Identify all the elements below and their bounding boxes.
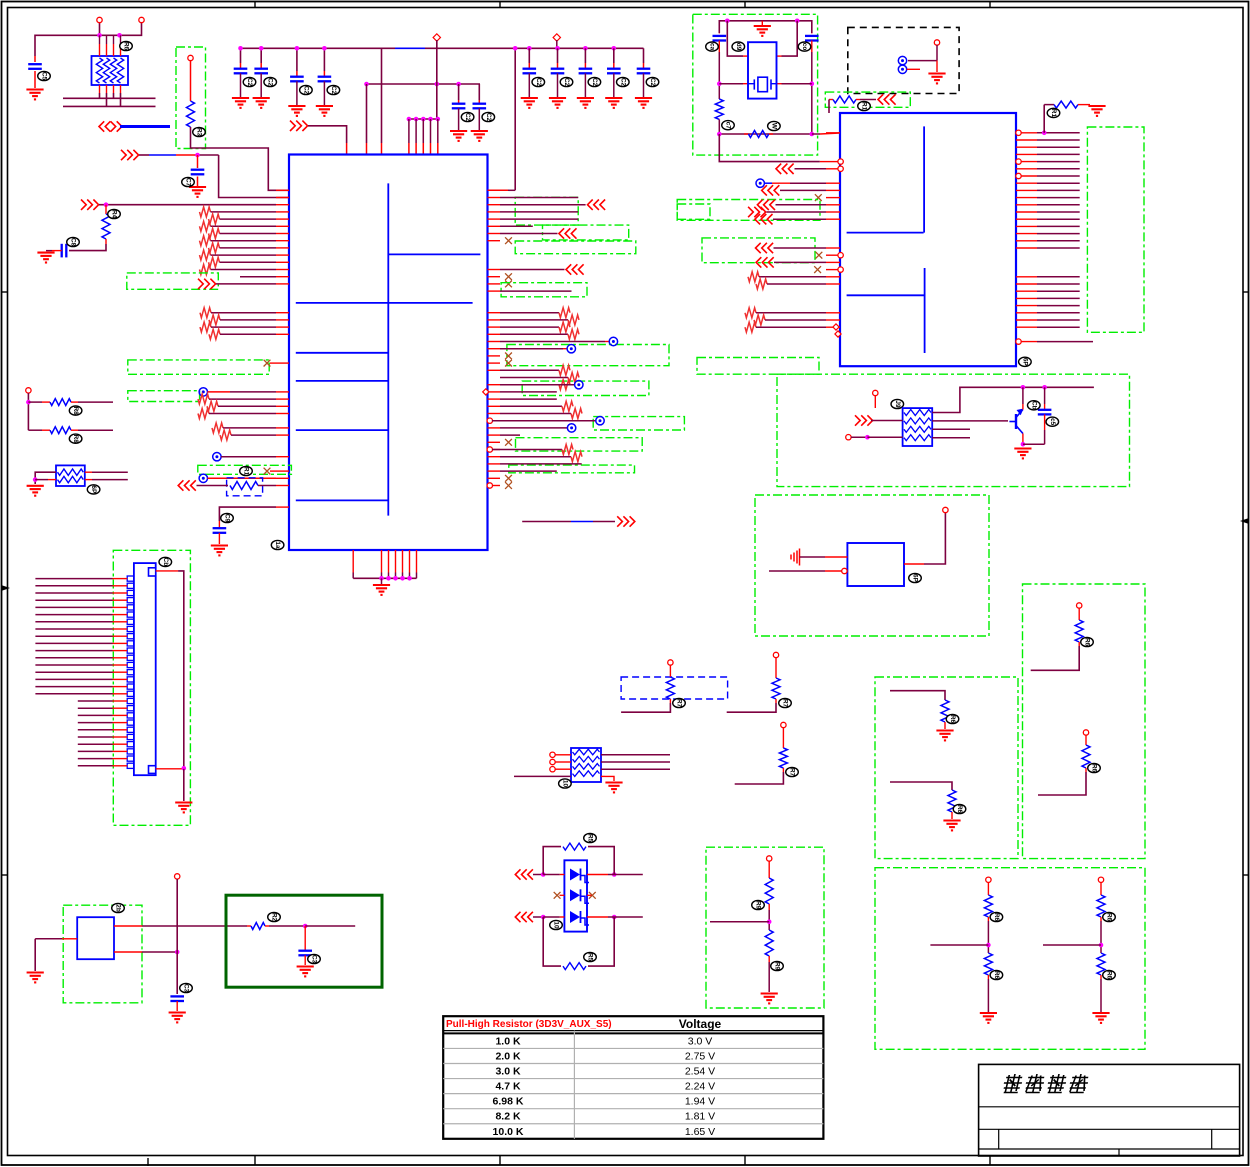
resistor R12: [765, 861, 773, 910]
svg-text:10.0 K: 10.0 K: [493, 1126, 524, 1138]
ic U3 right pin stubs: [1016, 133, 1037, 342]
pin diamond: [483, 389, 489, 395]
node junction: [97, 33, 122, 38]
wire: [78, 758, 127, 760]
wire: [500, 384, 559, 386]
net box: [113, 550, 190, 825]
net box: [127, 273, 219, 289]
designator R20: [1081, 637, 1094, 646]
wire: [46, 250, 52, 252]
node junction: [1021, 385, 1047, 390]
svg-text:R1: R1: [861, 102, 868, 111]
resistor R22: [984, 882, 992, 921]
connector J1 body: [134, 563, 156, 775]
net box: [677, 200, 820, 221]
designator U3: [1019, 357, 1032, 366]
net box: [702, 238, 815, 263]
svg-text:d9: d9: [735, 43, 742, 51]
designator C15: [221, 513, 234, 522]
designator R22a: [1103, 912, 1116, 921]
wire: [765, 319, 826, 321]
wire: [353, 573, 416, 581]
net box: [875, 868, 1145, 1050]
wire: [773, 218, 826, 220]
ic U3 left pin stubs: [826, 133, 840, 327]
resistor RN30: [207, 401, 218, 411]
wire: [557, 48, 559, 68]
net box: [697, 358, 819, 375]
resistor R6: [247, 923, 305, 930]
designator C18: [706, 42, 719, 51]
ground: [761, 994, 778, 1004]
node junction: [725, 19, 800, 24]
capacitor C2: [191, 155, 205, 186]
resistor RN30r: [562, 401, 573, 411]
designator R22a: [990, 912, 1003, 921]
wire: [430, 119, 432, 155]
title block: [979, 1064, 1240, 1156]
port: [767, 856, 772, 861]
resistor R8: [543, 917, 614, 970]
off-page >>>: [748, 207, 766, 217]
capacitor C11: [637, 69, 651, 97]
svg-text:C2: C2: [649, 78, 656, 87]
svg-text:ca: ca: [709, 43, 716, 51]
ground: [175, 803, 192, 813]
port: [26, 388, 31, 393]
svg-text:C2: C2: [267, 78, 274, 87]
wire: [78, 736, 127, 738]
net box: [501, 283, 587, 297]
resistor RN17r: [559, 308, 570, 318]
off-page <<<: [178, 480, 196, 490]
net box: [515, 241, 636, 254]
wire: [78, 714, 127, 716]
wire: [514, 775, 571, 777]
wire: [35, 650, 127, 652]
resistor pack RP1: [92, 35, 129, 93]
port VCC: [139, 17, 144, 22]
no-connect: [505, 439, 512, 446]
designator C5: [300, 85, 313, 94]
port: [553, 34, 560, 41]
svg-text:1.81 V: 1.81 V: [685, 1111, 715, 1123]
wire: [270, 362, 276, 364]
wire: [35, 578, 127, 580]
wire: [500, 413, 571, 415]
resistor R3: [197, 482, 277, 490]
resistor RN25d: [745, 308, 756, 318]
svg-text:R6: R6: [123, 42, 130, 51]
wire: [500, 470, 557, 472]
resistor R21: [1082, 735, 1090, 772]
designator C16: [180, 983, 193, 992]
node junction: [527, 46, 532, 51]
port: [773, 652, 778, 657]
wire: [601, 776, 614, 781]
svg-text:1.65 V: 1.65 V: [685, 1126, 715, 1138]
ground: [37, 253, 54, 263]
wire: [211, 269, 277, 271]
wire: [231, 434, 276, 436]
wire: [139, 154, 219, 156]
wire: [735, 772, 784, 784]
wire: [240, 48, 242, 68]
wire: [437, 119, 439, 155]
ground: [450, 131, 467, 141]
svg-text:3.0 V: 3.0 V: [688, 1035, 713, 1047]
wire: [587, 915, 643, 920]
wire: [500, 456, 571, 458]
net box: [128, 391, 200, 402]
ic U2: [77, 917, 114, 959]
net box: [677, 204, 710, 219]
svg-text:1.0 K: 1.0 K: [495, 1035, 521, 1047]
wire: [220, 319, 276, 321]
wire: [211, 211, 277, 213]
node junction: [583, 46, 588, 51]
wire: [776, 204, 827, 206]
resistor RN19: [200, 322, 211, 332]
ground: [211, 546, 228, 556]
resistor RN27d: [745, 322, 756, 332]
off-page <<<: [776, 164, 794, 174]
wire: [35, 621, 127, 623]
svg-text:C3: C3: [311, 955, 318, 964]
designator R17: [1047, 108, 1060, 117]
wire: [533, 915, 564, 920]
wire: [765, 182, 827, 184]
wire: [78, 707, 127, 709]
wire: [500, 326, 559, 328]
wire: [500, 290, 572, 292]
testpoint: [898, 65, 906, 73]
svg-text:C5: C5: [41, 72, 48, 81]
ground: [980, 1013, 997, 1023]
net box: [509, 465, 635, 473]
wire: [908, 45, 937, 72]
ground: [549, 98, 566, 108]
net box: [515, 197, 578, 225]
ground: [928, 74, 945, 84]
resistor RN6: [209, 229, 220, 239]
resistor R16: [829, 96, 876, 103]
resistor RN31r: [571, 409, 582, 419]
svg-text:C2: C2: [535, 78, 542, 87]
testpoint: [756, 179, 764, 187]
off-page <<<: [756, 243, 774, 253]
chassis ground: [791, 549, 800, 566]
ground: [635, 98, 652, 108]
wire: [500, 233, 558, 235]
resistor RN27r: [559, 380, 570, 390]
resistor RN10: [209, 257, 220, 267]
wire: [500, 377, 568, 379]
wire: [381, 578, 383, 584]
designator R16: [858, 101, 871, 110]
designator R22b: [990, 970, 1003, 979]
designator R9: [673, 698, 686, 707]
capacitor C5: [290, 77, 304, 105]
wire: [218, 405, 276, 407]
svg-text:R9: R9: [755, 901, 762, 910]
wire: [1022, 387, 1024, 409]
wire: [767, 211, 827, 213]
resistor RN5: [200, 221, 211, 231]
resistor RN9: [200, 250, 211, 260]
off-page >>>: [121, 150, 139, 160]
off-page <<<: [755, 214, 773, 224]
wire: [500, 269, 565, 271]
resistor RN8: [209, 243, 220, 253]
svg-text:C2: C2: [464, 113, 471, 122]
wire: [533, 872, 564, 877]
svg-text:R2: R2: [271, 913, 278, 922]
svg-text:J9: J9: [894, 400, 901, 408]
net box: [176, 47, 206, 149]
off-page <<<: [878, 94, 896, 104]
resistor RN26r: [568, 373, 579, 383]
off-page <<<: [559, 228, 577, 238]
net box: [516, 438, 643, 451]
wire: [500, 384, 575, 386]
wire: [35, 35, 121, 56]
svg-text:C2: C2: [485, 113, 492, 122]
wire: [211, 225, 277, 227]
testpoint: [596, 417, 604, 425]
wire: [774, 247, 827, 249]
testpoint: [609, 337, 617, 345]
ground: [316, 106, 333, 116]
wire: [296, 48, 298, 76]
net box: [755, 495, 989, 636]
svg-text:R6: R6: [1106, 971, 1113, 980]
wire: [492, 449, 562, 451]
wire: [719, 134, 826, 162]
wire: [223, 427, 276, 429]
ground: [605, 98, 622, 108]
wire: [800, 556, 848, 558]
wire: [727, 21, 748, 56]
node junction: [612, 46, 617, 51]
svg-text:co: co: [801, 43, 808, 51]
ground: [189, 187, 206, 197]
wire: [1031, 646, 1080, 670]
wire: [63, 93, 156, 106]
svg-text:6P: 6P: [90, 485, 97, 494]
resistor RN19r: [559, 322, 570, 332]
wire: [478, 84, 480, 104]
node junction: [26, 400, 31, 405]
node junction: [322, 46, 327, 51]
node junction: [295, 46, 300, 51]
svg-text:Cb: Cb: [1030, 401, 1037, 410]
node junction: [104, 202, 109, 207]
off-page <<>>: [99, 121, 122, 131]
designator J1: [159, 557, 172, 566]
capacitor C4: [254, 69, 268, 97]
resistor R13: [765, 930, 773, 962]
testpoint: [199, 388, 207, 396]
off-page <<<: [515, 869, 533, 879]
resistor R9: [666, 665, 674, 703]
wire: [99, 23, 101, 36]
resistor RN31: [198, 409, 209, 419]
wire: [114, 950, 180, 955]
resistor RN21c: [756, 279, 767, 289]
pin circle: [550, 752, 555, 772]
pin circle: [487, 483, 492, 488]
net box: [875, 677, 1018, 859]
port: [175, 874, 180, 879]
designator C17: [308, 954, 321, 963]
testpoint: [567, 345, 575, 353]
capacitor C3: [234, 69, 248, 97]
ic U1 bottom pins: [353, 550, 416, 573]
wire: [216, 283, 276, 285]
svg-text:c7: c7: [725, 122, 732, 130]
designator R19: [953, 804, 966, 813]
wire: [500, 312, 559, 314]
designator R3: [240, 466, 253, 475]
port: [943, 507, 948, 512]
capacitor C12: [452, 104, 466, 130]
resistor R22b: [1097, 953, 1105, 979]
wire: [78, 765, 127, 767]
net box: [825, 92, 910, 107]
no-connect: [505, 353, 512, 360]
pin circle: [1016, 130, 1021, 344]
designator D1: [550, 920, 563, 929]
wire: [587, 872, 643, 877]
designator RP1: [120, 41, 133, 50]
wire: [211, 312, 276, 314]
capacitor C18: [713, 33, 727, 52]
no-connect: [505, 273, 512, 280]
pin circle: [487, 418, 492, 423]
svg-text:Cb: Cb: [162, 558, 169, 567]
wire: [851, 435, 903, 440]
wire: [555, 755, 571, 769]
wire: [1021, 434, 1045, 447]
wire: [812, 133, 840, 134]
power rail wire: [239, 47, 644, 49]
wire: [35, 678, 127, 680]
resistor RN37r: [571, 452, 582, 462]
resistor RN18: [209, 315, 220, 325]
resistor RN29: [198, 394, 209, 404]
wire: [85, 472, 128, 479]
wire: [500, 218, 578, 220]
wire: [488, 189, 516, 191]
wire: [874, 396, 876, 408]
ground: [288, 106, 305, 116]
no-connect: [505, 281, 512, 288]
designator U1: [271, 540, 284, 549]
svg-text:4.7 K: 4.7 K: [495, 1081, 521, 1093]
net box: [777, 374, 1130, 486]
wire: [759, 276, 826, 278]
wire: [78, 743, 127, 745]
svg-text:6.98 K: 6.98 K: [493, 1096, 524, 1108]
wire: [35, 642, 127, 644]
wire: [1043, 105, 1045, 133]
svg-text:R6: R6: [993, 971, 1000, 980]
wire: [643, 48, 645, 68]
resistor R1: [187, 101, 195, 127]
resistor R4: [28, 399, 113, 406]
wire: [769, 570, 842, 572]
no-connect: [505, 482, 512, 489]
wire: [560, 894, 592, 896]
node junction: [364, 82, 461, 87]
svg-text:C7: C7: [185, 178, 192, 187]
wire: [500, 434, 520, 436]
resistor RN18r: [568, 315, 579, 325]
no-connect: [816, 252, 823, 259]
net box: [507, 345, 669, 366]
designator R13: [771, 961, 784, 970]
port: [1098, 877, 1103, 882]
wire: [209, 413, 276, 415]
capacitor C7: [523, 69, 537, 97]
designator C13: [482, 112, 495, 121]
no-connect: [505, 360, 512, 367]
wire: [1038, 772, 1086, 795]
svg-text:C2: C2: [330, 86, 337, 95]
designator C9: [588, 77, 601, 86]
svg-text:R6: R6: [949, 715, 956, 724]
svg-text:R5: R5: [587, 834, 594, 843]
wire: [120, 125, 170, 128]
ground: [169, 1013, 186, 1023]
wire: [613, 48, 615, 68]
off-page <<<: [588, 200, 606, 210]
svg-text:2.54 V: 2.54 V: [685, 1066, 715, 1078]
resistor RN36r: [562, 445, 573, 455]
wire: [522, 521, 615, 523]
wire: [528, 48, 530, 68]
designator C20b: [1046, 417, 1059, 426]
resistor R22b: [984, 953, 992, 979]
ic U3: [840, 113, 1016, 366]
designator RP3: [559, 779, 572, 788]
node junction: [513, 46, 518, 51]
resistor R2: [102, 205, 110, 244]
ground: [1092, 1013, 1109, 1023]
wire: [514, 48, 516, 190]
svg-text:Pull-High Resistor (3D3V_AUX_S: Pull-High Resistor (3D3V_AUX_S5): [446, 1019, 612, 1030]
wire: [767, 283, 826, 285]
resistor RN11: [200, 265, 211, 275]
wire: [35, 606, 127, 608]
svg-text:2.75 V: 2.75 V: [685, 1050, 715, 1062]
port: [668, 660, 673, 665]
off-page >>>: [81, 200, 99, 210]
capacitor C16: [170, 996, 184, 1011]
net box: [128, 360, 269, 374]
ic U1 right pin stubs: [488, 190, 501, 485]
wire: [323, 48, 325, 76]
svg-text:R6: R6: [1106, 913, 1113, 922]
wire: [436, 40, 438, 119]
capacitor C1: [28, 56, 42, 88]
designator C1: [38, 71, 51, 80]
resistor R20: [1075, 608, 1083, 646]
designator R22b: [1103, 970, 1116, 979]
svg-text:C2: C2: [619, 78, 626, 87]
wire: [584, 48, 586, 68]
